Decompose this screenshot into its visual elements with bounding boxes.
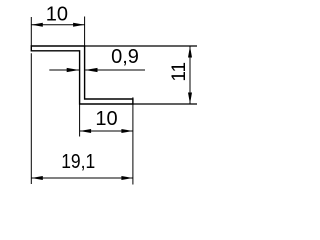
arrowhead right of top 10 bbox=[73, 23, 85, 27]
extension line left (web left face extended, x=79.6) bbox=[79, 104, 81, 137]
svg-text:11: 11 bbox=[169, 62, 190, 82]
arrowhead right of middle 10 bbox=[121, 129, 132, 133]
arrowhead pointing right at web left face bbox=[67, 68, 80, 72]
svg-text:19,1: 19,1 bbox=[61, 151, 95, 173]
svg-text:10: 10 bbox=[95, 108, 117, 130]
dimension 11 (overall height, right side) bbox=[85, 46, 197, 104]
dimension line y=178 bbox=[31, 177, 133, 179]
arrowhead pointing left at web right face bbox=[85, 68, 98, 72]
extension line left (x=31.3, below profile) bbox=[30, 53, 32, 184]
dimension line y=24.7 bbox=[31, 24, 84, 26]
arrowhead left of top 10 bbox=[31, 23, 43, 27]
extension line right (x=132.9 shared with 19,1) bbox=[132, 97, 134, 184]
Z-profile outline bbox=[31, 46, 133, 104]
leader line right bbox=[85, 69, 145, 71]
svg-text:0,9: 0,9 bbox=[111, 46, 139, 68]
dimension 10 (bottom flange width) bbox=[80, 97, 133, 184]
dimension 10 (top flange width) bbox=[31, 17, 84, 47]
dimension 19,1 (overall width, bottom) bbox=[31, 53, 133, 184]
arrowhead down of 11 bbox=[188, 93, 192, 105]
extension line left (x=31.3) bbox=[30, 17, 32, 46]
dimension 0,9 (web thickness) bbox=[49, 69, 145, 71]
leader line left bbox=[49, 69, 79, 71]
svg-text:10: 10 bbox=[46, 3, 68, 25]
dimension line y=131 bbox=[80, 130, 133, 132]
extension line top (top surface extended) bbox=[85, 45, 197, 47]
arrowhead left of 19,1 bbox=[31, 176, 43, 180]
arrowhead up of 11 bbox=[188, 46, 192, 58]
extension line right (x=84.6) bbox=[84, 17, 86, 47]
extension line bottom (bottom surface extended) bbox=[133, 103, 197, 105]
arrowhead right of 19,1 bbox=[121, 176, 132, 180]
dimension line x=190 bbox=[189, 46, 191, 104]
arrowhead left of middle 10 bbox=[80, 129, 92, 133]
